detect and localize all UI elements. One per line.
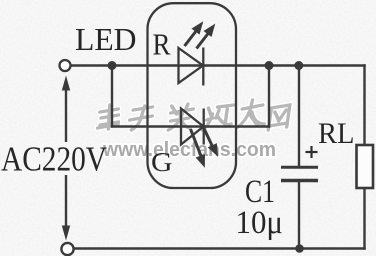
wire right upper — [363, 66, 365, 146]
svg-text:G: G — [151, 147, 173, 177]
wire right lower — [363, 188, 365, 249]
svg-text:10μ: 10μ — [236, 205, 284, 241]
svg-text:www.elecfans.com: www.elecfans.com — [102, 138, 276, 161]
AC source up arrow — [62, 76, 70, 143]
AC source down arrow — [62, 175, 70, 241]
terminal top — [60, 60, 71, 71]
wire left branch — [111, 66, 113, 127]
watermark chinese characters — [97, 100, 290, 130]
wire G bottom — [112, 125, 269, 127]
capacitor C1 plates — [281, 167, 318, 180]
wire right branch — [268, 66, 270, 127]
wire top — [71, 64, 365, 66]
LED R — [179, 48, 204, 86]
LED R emission arrows — [185, 21, 216, 48]
junction dot A — [108, 61, 117, 70]
svg-text:R: R — [153, 27, 171, 62]
dual LED package outline — [148, 3, 237, 188]
terminal bottom — [61, 243, 73, 255]
wire bottom — [73, 247, 365, 249]
wire capacitor lower lead — [298, 181, 300, 249]
junction dot D — [295, 244, 304, 253]
svg-text:RL: RL — [318, 117, 355, 150]
capacitor plus sign — [306, 146, 318, 158]
LED G — [181, 109, 204, 145]
svg-text:AC220V: AC220V — [1, 140, 107, 179]
svg-text:LED: LED — [75, 21, 137, 57]
watermark url — [102, 138, 276, 161]
LED G emission arrows — [191, 128, 219, 168]
junction dot C — [294, 61, 303, 70]
wire capacitor upper lead — [298, 66, 300, 168]
junction dot B — [265, 61, 274, 70]
resistor RL body — [357, 145, 374, 188]
